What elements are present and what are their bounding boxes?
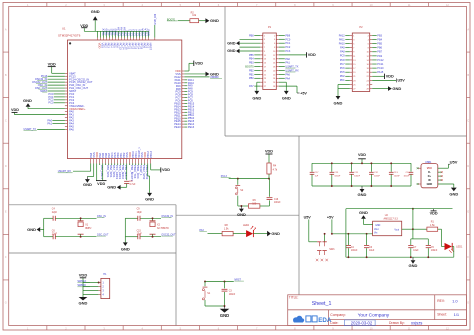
svg-text:C16: C16 <box>274 199 279 201</box>
svg-text:ID: ID <box>428 179 431 182</box>
svg-text:PD1: PD1 <box>340 79 345 82</box>
svg-text:PD2: PD2 <box>377 55 382 58</box>
svg-text:PB1_ADC2: PB1_ADC2 <box>124 165 128 180</box>
svg-text:NRST: NRST <box>147 28 151 36</box>
svg-text:PA4: PA4 <box>285 77 290 80</box>
svg-text:REV:: REV: <box>437 299 445 303</box>
svg-text:PC10: PC10 <box>377 67 384 70</box>
svg-text:B: B <box>467 73 469 77</box>
svg-text:PB8: PB8 <box>249 34 254 37</box>
svg-text:GND: GND <box>27 227 36 232</box>
svg-text:PA12: PA12 <box>339 34 346 37</box>
svg-text:GND: GND <box>210 71 219 76</box>
svg-text:100nF: 100nF <box>351 250 358 252</box>
svg-text:100nF: 100nF <box>394 175 401 177</box>
svg-text:Company:: Company: <box>330 313 346 317</box>
svg-text:PB3: PB3 <box>249 62 254 65</box>
svg-text:VDD: VDD <box>308 53 316 57</box>
svg-text:PB0: PB0 <box>249 77 254 80</box>
svg-text:PC2: PC2 <box>285 46 290 49</box>
svg-text:PA1: PA1 <box>285 62 290 65</box>
svg-text:PA9: PA9 <box>340 47 345 50</box>
svg-text:+5V: +5V <box>300 91 307 95</box>
svg-text:PC8: PC8 <box>340 59 345 62</box>
svg-text:VDD: VDD <box>97 182 105 186</box>
svg-text:PE13: PE13 <box>188 125 195 129</box>
svg-text:PC11: PC11 <box>377 63 384 66</box>
svg-text:C15: C15 <box>137 230 142 232</box>
svg-text:GND: GND <box>227 41 236 45</box>
svg-text:GND: GND <box>91 9 100 14</box>
svg-text:+5V: +5V <box>327 216 334 220</box>
svg-text:GND: GND <box>227 49 236 53</box>
svg-text:U5V: U5V <box>304 216 312 220</box>
svg-text:VDD: VDD <box>265 149 273 153</box>
svg-text:EDA: EDA <box>318 317 332 324</box>
svg-text:PC6: PC6 <box>340 67 345 70</box>
svg-text:PC3: PC3 <box>48 101 54 105</box>
svg-text:1.0: 1.0 <box>452 299 458 304</box>
svg-text:VDD: VDD <box>162 168 170 172</box>
svg-text:PB9: PB9 <box>285 34 290 37</box>
svg-text:PA0: PA0 <box>285 58 290 61</box>
svg-text:P2: P2 <box>359 25 363 29</box>
svg-text:PB5: PB5 <box>377 43 382 46</box>
svg-text:GND: GND <box>121 246 130 251</box>
svg-text:PA10: PA10 <box>339 42 346 45</box>
svg-text:PB2: PB2 <box>249 69 254 72</box>
svg-text:100: 100 <box>252 203 257 206</box>
svg-text:GND: GND <box>271 232 280 236</box>
svg-text:PC3: PC3 <box>285 50 290 53</box>
svg-text:PB7: PB7 <box>377 51 382 54</box>
svg-text:GND: GND <box>427 183 433 186</box>
svg-text:NRST: NRST <box>149 43 153 51</box>
svg-text:PC7: PC7 <box>340 63 345 66</box>
svg-text:G: G <box>467 301 469 305</box>
svg-text:D: D <box>467 164 469 168</box>
svg-text:32.768KHz: 32.768KHz <box>157 227 170 230</box>
svg-text:GND: GND <box>375 225 380 227</box>
svg-text:LED1: LED1 <box>456 245 463 248</box>
svg-text:100nF: 100nF <box>374 175 381 177</box>
svg-text:GND: GND <box>449 191 458 196</box>
svg-text:PE13: PE13 <box>174 125 181 129</box>
svg-text:PB4: PB4 <box>249 58 254 61</box>
svg-text:D: D <box>5 164 7 168</box>
svg-text:PA4_DAC1: PA4_DAC1 <box>100 165 104 179</box>
svg-text:VDD: VDD <box>386 75 394 79</box>
svg-text:D+: D+ <box>428 175 432 178</box>
svg-text:PB3: PB3 <box>377 34 382 37</box>
svg-text:SW1: SW1 <box>329 248 335 251</box>
svg-text:GND: GND <box>409 263 418 268</box>
svg-text:10uF: 10uF <box>413 250 419 252</box>
svg-text:U5V: U5V <box>450 160 458 165</box>
svg-text:PA7: PA7 <box>249 85 254 88</box>
svg-text:PA6: PA6 <box>285 73 290 76</box>
svg-text:PC5: PC5 <box>340 71 345 74</box>
svg-text:GND: GND <box>145 197 154 202</box>
svg-text:Sheet:: Sheet: <box>437 313 447 317</box>
svg-text:VDD: VDD <box>358 153 366 157</box>
svg-text:GND: GND <box>23 98 32 103</box>
svg-text:100nF: 100nF <box>334 175 341 177</box>
svg-text:Your Company: Your Company <box>358 313 390 319</box>
svg-text:P1: P1 <box>268 25 272 29</box>
svg-text:10pF: 10pF <box>137 234 143 236</box>
svg-text:PC12: PC12 <box>377 59 384 62</box>
svg-text:PA15: PA15 <box>377 71 384 74</box>
svg-text:PA6: PA6 <box>69 127 74 131</box>
svg-text:PB13: PB13 <box>149 151 153 158</box>
svg-text:GND: GND <box>359 210 368 215</box>
svg-text:BOOT0: BOOT0 <box>245 65 254 68</box>
svg-text:Date:: Date: <box>330 321 338 325</box>
svg-text:C: C <box>467 118 469 122</box>
svg-text:VDD: VDD <box>195 62 203 66</box>
svg-text:VDD: VDD <box>79 272 88 277</box>
svg-text:10pF: 10pF <box>137 212 143 214</box>
svg-text:PC0: PC0 <box>285 38 290 41</box>
svg-text:1.5k: 1.5k <box>224 227 229 230</box>
svg-text:E: E <box>467 210 469 214</box>
svg-text:A: A <box>5 27 7 31</box>
svg-text:PD2: PD2 <box>340 75 345 78</box>
svg-text:PA1: PA1 <box>47 121 52 125</box>
svg-text:GND: GND <box>220 313 229 318</box>
svg-text:U5V: U5V <box>398 79 406 83</box>
svg-text:B: B <box>5 73 7 77</box>
svg-text:4.7uF: 4.7uF <box>130 184 136 186</box>
svg-text:U1: U1 <box>62 27 66 31</box>
svg-text:VDD: VDD <box>80 24 88 28</box>
svg-text:Sheet_1: Sheet_1 <box>312 301 332 307</box>
svg-text:PA8: PA8 <box>340 51 345 54</box>
svg-text:PA11: PA11 <box>339 38 345 41</box>
svg-text:LED2: LED2 <box>243 224 250 227</box>
svg-text:PB13_SPI2: PB13_SPI2 <box>145 165 149 180</box>
svg-text:TITLE:: TITLE: <box>289 296 299 300</box>
svg-text:2020-03-02: 2020-03-02 <box>351 320 373 325</box>
svg-text:USB1: USB1 <box>425 161 432 164</box>
svg-text:PB4: PB4 <box>377 38 382 41</box>
svg-text:PB5: PB5 <box>249 54 254 57</box>
svg-text:22pF: 22pF <box>52 212 58 214</box>
svg-text:D-: D- <box>428 171 431 174</box>
svg-text:8MHz: 8MHz <box>85 227 92 230</box>
svg-text:1.5k: 1.5k <box>430 224 435 227</box>
svg-text:GND: GND <box>358 192 367 197</box>
svg-text:100nF: 100nF <box>403 175 410 177</box>
svg-text:100nF: 100nF <box>229 294 236 296</box>
svg-text:1/1: 1/1 <box>454 312 460 317</box>
svg-text:10uF: 10uF <box>369 250 375 252</box>
svg-text:VDD: VDD <box>48 62 56 66</box>
svg-text:22pF: 22pF <box>52 234 58 236</box>
svg-text:G: G <box>5 301 7 305</box>
svg-text:E: E <box>5 210 7 214</box>
svg-text:Vout: Vout <box>374 228 379 231</box>
svg-text:100nF: 100nF <box>354 175 361 177</box>
svg-text:VDD: VDD <box>430 211 438 215</box>
svg-text:STM32F417IGT6: STM32F417IGT6 <box>58 34 81 38</box>
svg-text:GND: GND <box>252 95 261 100</box>
svg-text:GND: GND <box>107 185 116 190</box>
svg-text:GND: GND <box>334 100 343 105</box>
svg-text:GND: GND <box>282 95 291 100</box>
svg-text:VDD: VDD <box>11 108 19 112</box>
svg-text:GND: GND <box>237 212 246 217</box>
svg-text:100nF: 100nF <box>431 250 438 252</box>
svg-text:A: A <box>467 27 469 31</box>
svg-text:xxjszs: xxjszs <box>411 320 422 325</box>
svg-text:GND: GND <box>392 86 401 91</box>
svg-text:PC1: PC1 <box>285 42 290 45</box>
svg-text:4.7k: 4.7k <box>273 169 278 172</box>
svg-text:PB1: PB1 <box>249 73 254 76</box>
svg-text:GND: GND <box>83 182 92 187</box>
svg-text:C: C <box>5 118 7 122</box>
svg-text:AMS1117-3.3: AMS1117-3.3 <box>384 217 399 220</box>
svg-text:GND: GND <box>79 301 88 306</box>
svg-text:100nF: 100nF <box>274 202 281 204</box>
svg-text:Vout: Vout <box>394 228 399 231</box>
svg-text:Drawn By:: Drawn By: <box>389 321 405 325</box>
svg-text:GND: GND <box>210 18 219 23</box>
svg-text:USB_DM: USB_DM <box>153 14 157 25</box>
svg-text:PB6: PB6 <box>377 47 382 50</box>
svg-text:VCC: VCC <box>427 167 432 170</box>
svg-text:PC9: PC9 <box>340 55 345 58</box>
